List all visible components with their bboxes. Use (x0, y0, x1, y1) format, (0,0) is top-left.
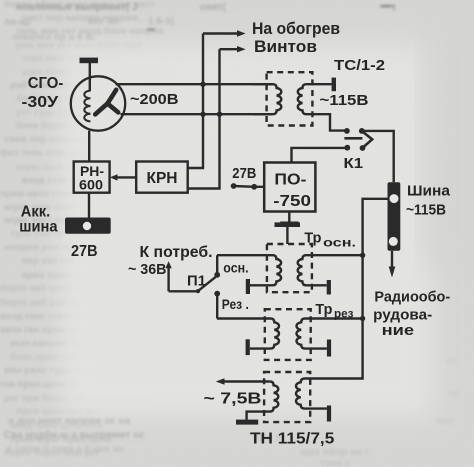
arrow: 7.5V output (216, 378, 270, 384)
Tr osn primary winding (115V side) (298, 255, 363, 285)
PO-750 27V input plug (231, 183, 265, 190)
Tr rez primary terminal bar (327, 340, 331, 357)
TN primary winding (115V side) (296, 379, 327, 409)
wire: generator to TC primary (bottom phase) (121, 113, 273, 115)
wire: K1 lower contact to PO-750 (292, 148, 348, 163)
arrow: KRN to RN-600 (110, 174, 136, 180)
Tr osn primary terminal bar (327, 280, 331, 295)
PO-750 ground terminal (280, 212, 298, 226)
transformer Tr osn dashed box (267, 244, 312, 292)
arrow: to consumers 36V (165, 261, 171, 291)
transformer TN 115/7.5 dashed box (264, 372, 310, 422)
wire: bus down the right side to TN transformer (305, 199, 388, 379)
Tr rez secondary winding (217, 319, 279, 349)
TC/1-2 output terminal bar (332, 78, 336, 92)
arrow: На обогрев винтов (lower) (220, 46, 246, 52)
K1 selector chevron (363, 132, 372, 147)
Tr rez secondary terminal bar (246, 339, 250, 355)
node: Tr rez tap (360, 316, 365, 321)
generator СГО-30У circle (71, 76, 125, 130)
transformer Tr rez dashed box (265, 309, 311, 360)
box KRN (136, 162, 188, 193)
reverse-page bleed-through texture (0, 0, 195, 459)
switch P1 blade (196, 277, 216, 293)
TN secondary ground bar (236, 420, 258, 425)
contactor K1 contacts (344, 128, 365, 151)
wire: osn contact to Tr osn (216, 255, 218, 275)
generator three-phase star (95, 90, 118, 115)
transformer TC/1-2 dashed box (267, 72, 313, 125)
wire: arrow to P1 pivot (169, 290, 198, 292)
wire: left riser to heating arrow 1 (188, 34, 203, 169)
generator СГО-30У terminal bar (80, 58, 99, 91)
battery bus bar (Акк. шина) (65, 218, 111, 234)
115V bus bar (Шина ~115В) (388, 182, 401, 251)
node: riser/phase junction dots (200, 82, 222, 117)
node: Tr osn tap (360, 253, 365, 258)
stray scan marks (147, 6, 395, 30)
inverter PO-750 box (264, 163, 315, 212)
generator stator coil (84, 91, 90, 122)
wire: generator to TC primary (top phase) (116, 83, 273, 85)
arrow: На обогрев винтов (upper) (203, 30, 246, 36)
TC/1-2 primary winding (253, 84, 281, 114)
Tr rez primary winding (297, 319, 363, 349)
Tr osn secondary winding (36V side) (217, 255, 281, 285)
wire: right riser to heating arrow 2 (188, 49, 220, 188)
P1 rez contact (214, 291, 220, 297)
Tr osn secondary terminal bar (246, 279, 250, 294)
wire: RN-600 to battery bus (88, 193, 90, 218)
TN primary terminal bar (327, 406, 331, 422)
TC/1-2 secondary winding (298, 84, 347, 130)
arrow: bus to radio equipment (389, 251, 396, 278)
TN secondary winding (7.5V side) (247, 382, 279, 420)
wire: generator down to RN-600 (88, 131, 90, 162)
Tr osn core ground terminal (275, 222, 301, 244)
wire: K1 to 115V bus (362, 131, 394, 182)
wire: rez contact to Tr rez (216, 294, 218, 319)
regulator RN-600 box (74, 162, 110, 193)
K1 closed-contact bar (344, 137, 362, 140)
P1 osn contact (214, 272, 220, 278)
